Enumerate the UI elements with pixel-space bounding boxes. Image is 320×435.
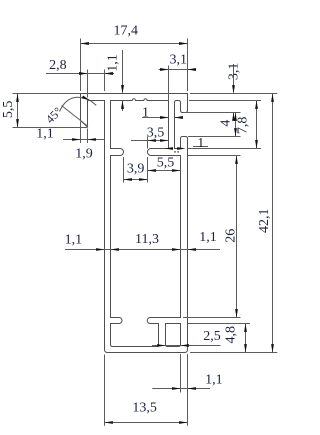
svg-text:4: 4: [219, 120, 234, 127]
svg-text:13,5: 13,5: [132, 401, 157, 416]
svg-text:5,5: 5,5: [157, 155, 175, 170]
svg-text:4,8: 4,8: [224, 326, 239, 344]
svg-text:17,4: 17,4: [113, 24, 138, 39]
svg-text:1,1: 1,1: [65, 232, 83, 247]
svg-text:1: 1: [142, 106, 149, 121]
svg-text:2,8: 2,8: [49, 58, 67, 73]
svg-text:11,3: 11,3: [135, 232, 159, 247]
svg-text:1,1: 1,1: [205, 373, 223, 388]
svg-text:7,8: 7,8: [236, 117, 251, 134]
svg-text:26: 26: [223, 229, 238, 243]
svg-text:3,1: 3,1: [169, 53, 187, 68]
svg-text:1,1: 1,1: [36, 127, 54, 142]
svg-text:1,1: 1,1: [105, 54, 120, 72]
svg-text:3,5: 3,5: [147, 126, 165, 141]
svg-text:3,9: 3,9: [127, 161, 145, 176]
svg-text:3,1: 3,1: [227, 63, 242, 81]
svg-text:1,9: 1,9: [75, 147, 93, 162]
svg-text:1,1: 1,1: [199, 230, 217, 245]
svg-text:5,5: 5,5: [1, 101, 16, 119]
svg-text:1: 1: [197, 136, 204, 151]
svg-text:2,5: 2,5: [203, 329, 221, 344]
svg-text:42,1: 42,1: [257, 208, 272, 233]
